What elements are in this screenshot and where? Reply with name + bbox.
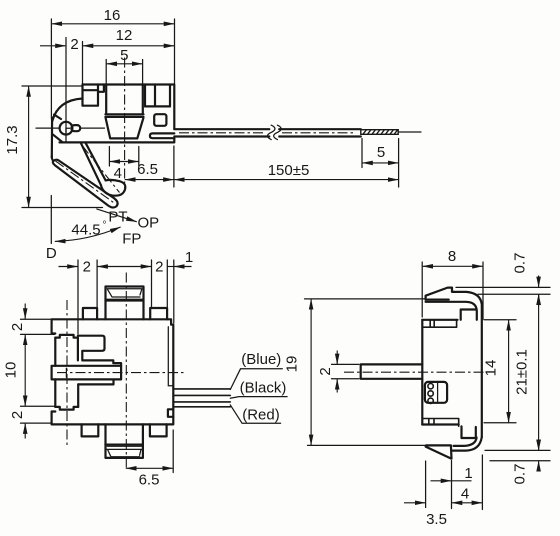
- extension line tip 5 right: [398, 139, 400, 188]
- lever OP position edge 2: [86, 143, 106, 180]
- cable centerline: [179, 132, 356, 134]
- dimension 4 bottom: [452, 502, 483, 504]
- terminal divider 1: [144, 85, 146, 107]
- dimension 6.5: [125, 179, 174, 181]
- extension line 16/12 right: [174, 19, 176, 84]
- extension lines top dims: [77, 260, 79, 334]
- lever centerline vertical: [66, 300, 68, 447]
- lever piece bottom cap: [55, 407, 78, 410]
- extension line 19 bottom / beak line: [308, 444, 427, 446]
- dimension 8: [422, 265, 483, 267]
- cover inner block: [461, 310, 476, 320]
- bottom block waist line: [106, 444, 143, 446]
- datum leg D: [50, 196, 52, 244]
- lever piece sides lower: [55, 379, 78, 407]
- contact block divider: [437, 383, 439, 402]
- dimension 2 left-top (front): [24, 304, 26, 320]
- svg-text:8: 8: [448, 248, 456, 265]
- extension line beak tip vertical: [451, 461, 453, 509]
- beak bottom edge: [426, 299, 449, 301]
- side body top edge: [422, 319, 457, 321]
- dimension 5 (tip): [362, 162, 399, 164]
- extension line 5 right: [142, 60, 144, 85]
- dimension 1 top: [167, 266, 174, 268]
- extension line tip 5 left: [361, 139, 363, 168]
- dimension 12: [83, 45, 175, 47]
- svg-text:14: 14: [483, 360, 500, 377]
- upper arm F shape: [78, 336, 121, 366]
- front body outline: [52, 319, 174, 424]
- dimension 10: [24, 334, 26, 406]
- svg-text:0.7: 0.7: [512, 253, 529, 274]
- extension line 8 left: [421, 262, 423, 317]
- extension line 5 left: [105, 60, 107, 85]
- svg-text:2: 2: [155, 259, 163, 276]
- top terminal row: [422, 320, 456, 327]
- extension line 17.3 top: [22, 85, 82, 87]
- svg-text:12: 12: [116, 27, 133, 44]
- body left rounded front arc: [52, 99, 82, 122]
- svg-text:2: 2: [9, 323, 26, 331]
- cover top beak: [426, 288, 454, 300]
- svg-text:(Red): (Red): [242, 407, 280, 424]
- plunger cavity: [105, 85, 143, 117]
- dimension 1 bottom: [431, 480, 452, 482]
- body top-left ear: [83, 85, 104, 106]
- extension line 2 through roller: [65, 38, 67, 142]
- extension line 14 bottom: [484, 422, 516, 424]
- front horizontal centerline: [57, 372, 186, 374]
- svg-text:5: 5: [377, 144, 385, 161]
- svg-text:150±5: 150±5: [268, 162, 310, 179]
- svg-text:6.5: 6.5: [139, 472, 160, 489]
- lever piece sides upper: [55, 338, 78, 366]
- roller tick: [66, 128, 70, 132]
- top bump right: [150, 308, 167, 319]
- wire slot: [150, 133, 174, 138]
- leader black: [230, 397, 287, 399]
- dimension 2 top-right: [116, 266, 152, 268]
- svg-text:2: 2: [70, 36, 78, 53]
- extension line 17.3 bottom: [22, 207, 103, 209]
- body left edge: [51, 118, 53, 158]
- cable upper line: [174, 128, 360, 130]
- cover bottom foot: [426, 437, 482, 459]
- stripped wire tip: [361, 130, 398, 135]
- side body bottom edge: [422, 423, 458, 425]
- roller pin fork: [71, 125, 80, 131]
- dimension 14: [508, 320, 510, 423]
- lead wires: [173, 388, 230, 390]
- svg-text:°: °: [103, 220, 107, 231]
- terminal shelf: [145, 105, 170, 107]
- roller: [60, 122, 73, 135]
- actuator rod: [361, 364, 423, 378]
- plunger trapezoid: [106, 118, 144, 138]
- svg-text:0.7: 0.7: [512, 464, 529, 485]
- dimension 0.7 top: [538, 276, 540, 288]
- jaw lower line: [52, 134, 63, 142]
- bottom block envelope: [106, 446, 142, 457]
- svg-text:21±0.1: 21±0.1: [514, 349, 531, 395]
- extension lines left dims: [21, 318, 52, 320]
- top bump left: [83, 308, 97, 319]
- dimension 2 top-left: [59, 266, 79, 268]
- bottom bump right: [150, 424, 167, 436]
- bottom center block: [106, 424, 143, 458]
- svg-text:4: 4: [114, 165, 122, 182]
- svg-text:1: 1: [464, 465, 472, 482]
- svg-text:(Blue): (Blue): [241, 351, 281, 368]
- cable lower line: [174, 135, 360, 137]
- svg-text:3.5: 3.5: [426, 511, 447, 528]
- extension line 8 right: [482, 262, 484, 319]
- cap top level line: [478, 293, 550, 295]
- right tab: [168, 409, 173, 417]
- foot level line: [485, 449, 550, 451]
- dimension 4: [109, 161, 138, 163]
- angle arc 44.5: [55, 227, 121, 241]
- svg-text:D: D: [46, 245, 57, 262]
- dimension 17.3: [28, 86, 30, 208]
- extension lines rod: [332, 363, 360, 365]
- dimension 5: [106, 63, 142, 65]
- lever piece top cap: [55, 335, 78, 338]
- bar lower step: [78, 380, 113, 385]
- dimension 6.5 (front): [126, 467, 173, 469]
- svg-text:PT: PT: [108, 209, 127, 226]
- svg-text:(Black): (Black): [240, 380, 287, 397]
- extension line 4 right: [481, 455, 483, 510]
- lever FP centerline: [56, 161, 114, 203]
- wire tip line: [398, 131, 421, 133]
- foot bottom level line: [490, 460, 550, 462]
- lever OP centerline: [82, 146, 119, 193]
- bottom terminal row: [422, 419, 458, 427]
- contact rivet 1: [428, 384, 433, 389]
- svg-text:6.5: 6.5: [137, 161, 158, 178]
- dimension 2 rod: [336, 351, 338, 365]
- svg-text:16: 16: [104, 7, 121, 24]
- cable break symbol: [267, 125, 281, 139]
- side centerline: [344, 371, 484, 373]
- roller center horizontal line: [36, 127, 105, 129]
- dimension 21±0.1: [538, 294, 540, 450]
- svg-text:4: 4: [461, 486, 469, 503]
- middle bar: [52, 366, 122, 380]
- dimension 150±5: [174, 179, 399, 181]
- top block waist line: [106, 299, 144, 301]
- jaw upper line: [54, 115, 61, 119]
- extension line 16 left / body left edge reference: [50, 19, 52, 119]
- top center block: [106, 287, 144, 320]
- extension line 3.5 left: [425, 461, 427, 508]
- body outline top view: [60, 85, 175, 143]
- svg-text:1: 1: [185, 249, 193, 266]
- extension line 4 right: [138, 147, 140, 167]
- terminal divider 2: [154, 85, 156, 107]
- dimension 0.7 bottom: [538, 440, 540, 451]
- dimension 16: [51, 23, 174, 25]
- lever FP position paddle: [53, 160, 118, 208]
- extension line 6.5 right: [172, 430, 174, 473]
- window: [154, 114, 166, 126]
- dimension 19: [310, 299, 312, 446]
- inner channel right side: [168, 327, 173, 386]
- contact rivet 2: [428, 391, 433, 396]
- svg-text:FP: FP: [122, 231, 141, 248]
- contact rivet 3: [428, 398, 433, 403]
- leader line PT/OP/FP: [96, 209, 137, 222]
- svg-text:2: 2: [9, 411, 26, 419]
- terminal divider 3: [169, 85, 171, 107]
- side body left edge: [421, 320, 423, 425]
- extension line 14 top: [484, 319, 516, 321]
- svg-text:19: 19: [284, 356, 301, 373]
- cover foot inner wall: [454, 438, 477, 446]
- lever OP hook end: [101, 180, 126, 196]
- svg-text:17.3: 17.3: [4, 125, 21, 154]
- bottom bump left: [82, 424, 99, 436]
- dimension 3.5: [404, 502, 426, 504]
- svg-text:10: 10: [3, 362, 20, 379]
- beak top level line: [456, 286, 550, 288]
- cover top inner wall: [426, 302, 477, 320]
- extension line 19 top: [305, 298, 426, 300]
- top block envelope: [106, 289, 142, 300]
- dimension 2 (roller offset): [40, 45, 66, 47]
- cover top outer: [454, 292, 482, 437]
- extension line 4 left: [108, 147, 110, 167]
- body lower-left foot curl: [52, 157, 54, 161]
- leader blue: [230, 369, 282, 390]
- contact block: [425, 382, 447, 403]
- lever OP position edge 1: [81, 143, 101, 185]
- svg-text:44.5: 44.5: [71, 222, 100, 239]
- centerline plunger vertical: [124, 58, 126, 189]
- svg-text:OP: OP: [137, 215, 159, 232]
- extension line 12 left: [82, 42, 84, 85]
- leader red: [230, 405, 280, 423]
- cover bottom step box: [462, 426, 476, 438]
- lever pivot cross: [65, 368, 67, 377]
- svg-text:2: 2: [317, 367, 334, 375]
- centerline front vertical: [125, 273, 127, 471]
- extension line 6.5/150 shared: [173, 146, 175, 187]
- svg-text:2: 2: [83, 259, 91, 276]
